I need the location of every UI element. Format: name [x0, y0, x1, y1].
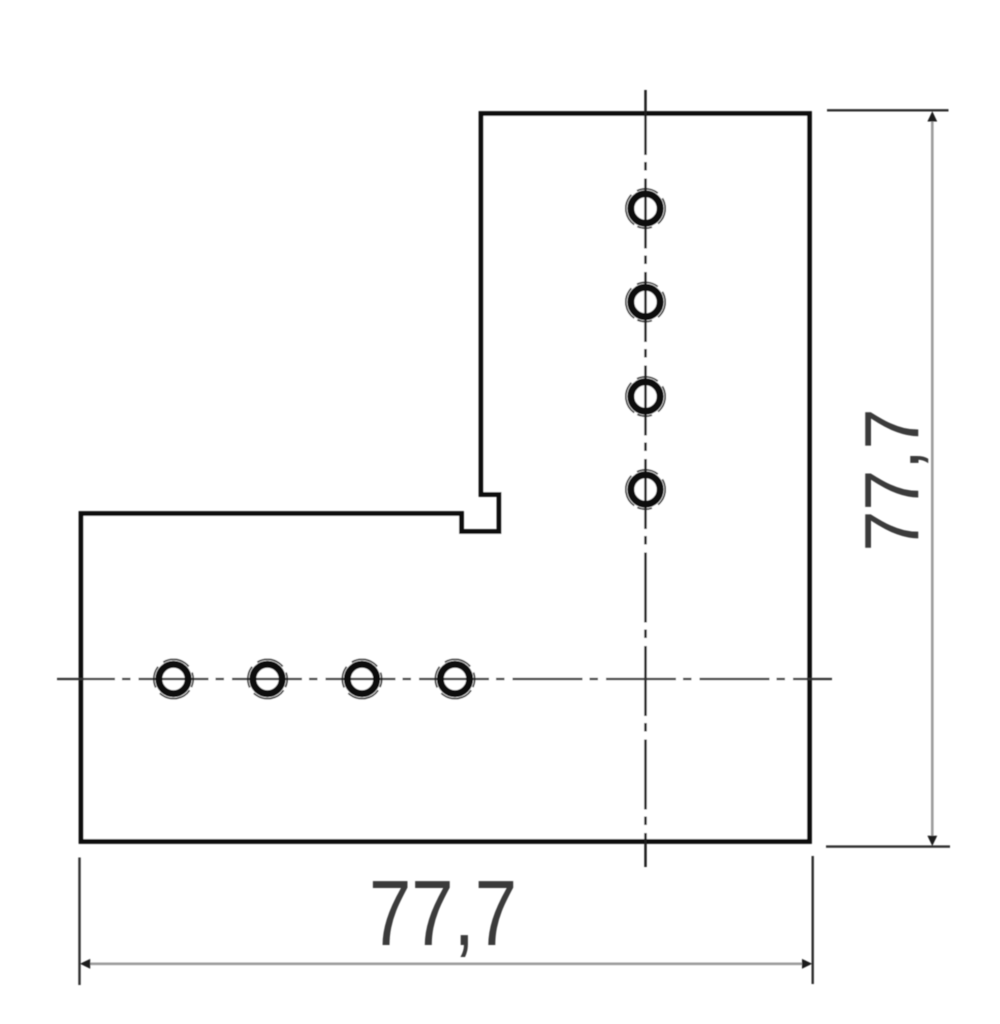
hole H8 (row, right) [428, 652, 483, 707]
hole H3 (column) [618, 369, 673, 424]
arrowhead, right dim top [927, 111, 937, 121]
horizontal centerline [57, 678, 832, 680]
extension line, bottom dimension left [78, 858, 80, 986]
dimension line, right (vertical) [931, 117, 934, 841]
part outline (L-shaped plate with corner relief notch) [81, 114, 810, 842]
arrowhead, bottom dim left [80, 959, 90, 969]
hole H6 (row) [240, 652, 295, 707]
extension line, bottom dimension right [812, 856, 814, 984]
vertical centerline [644, 90, 647, 867]
extension line, right dimension bottom [826, 845, 950, 847]
arrowhead, right dim bottom [927, 836, 937, 846]
hole H5 (row, left) [146, 652, 201, 707]
hole H1 (column, top) [618, 181, 673, 236]
svg-text:77,7: 77,7 [369, 861, 517, 965]
hole H4 (column, bottom) [618, 462, 673, 517]
svg-text:77,7: 77,7 [850, 409, 936, 552]
arrowhead, bottom dim right [802, 959, 812, 969]
hole H2 (column) [618, 275, 673, 330]
dimension line, bottom (horizontal) [85, 962, 807, 965]
extension line, right dimension top [827, 109, 949, 111]
hole H7 (row) [335, 652, 390, 707]
